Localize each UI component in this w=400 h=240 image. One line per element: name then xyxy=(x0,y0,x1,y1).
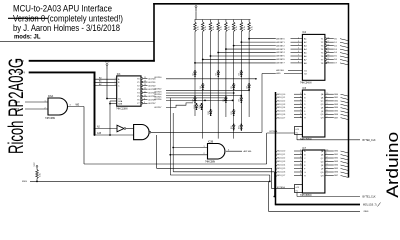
svg-text:MCU_D0: MCU_D0 xyxy=(277,94,285,96)
wire IC6B input pin5 xyxy=(170,154,207,156)
svg-text:D6: D6 xyxy=(246,86,248,88)
svg-text:4.7k: 4.7k xyxy=(228,26,230,30)
wire IC7 out Q5 xyxy=(325,168,334,170)
wire DB0..7 xyxy=(29,60,155,62)
wire /RES bottom xyxy=(269,211,360,213)
wire PHI2 to IC6A pin2 xyxy=(25,108,48,110)
wire IC5 out Q2 xyxy=(325,100,334,102)
wire matrix column 7 xyxy=(240,32,242,132)
ic IC5 clock pin box xyxy=(295,127,303,135)
svg-text:15: 15 xyxy=(327,93,329,95)
svg-text:AXI BIT4: AXI BIT4 xyxy=(276,51,285,54)
svg-text:VCC: VCC xyxy=(194,4,199,6)
svg-text:74HC540N: 74HC540N xyxy=(300,82,312,84)
svg-text:DB7: DB7 xyxy=(334,175,338,177)
svg-text:D13: D13 xyxy=(239,126,241,129)
diode D10 xyxy=(209,111,212,113)
resistor R2 4.7k xyxy=(202,20,204,23)
svg-text:4.7k: 4.7k xyxy=(197,26,199,30)
svg-text:AXI BIT7: AXI BIT7 xyxy=(276,62,285,65)
diode D5 xyxy=(232,85,235,87)
svg-text:MCU_D(0..7): MCU_D(0..7) xyxy=(363,204,377,206)
resistor R8 4.7k xyxy=(248,20,250,23)
wire matrix row 4017D6 xyxy=(166,99,233,101)
svg-text:8: 8 xyxy=(298,58,299,60)
wire IC7 in MCU_D6 xyxy=(276,172,278,174)
svg-text:12: 12 xyxy=(328,58,330,60)
svg-text:AXI SEL: AXI SEL xyxy=(276,69,285,72)
svg-text:AXI BIT6: AXI BIT6 xyxy=(276,58,285,61)
wire AXI BIT1 xyxy=(241,41,275,43)
svg-text:VCC: VCC xyxy=(34,162,36,167)
resistor R9 3.3k pullup xyxy=(36,167,38,169)
diode D13 xyxy=(240,126,243,128)
svg-text:BYTE0_CLK: BYTE0_CLK xyxy=(363,140,376,142)
wire loop2 horizontal xyxy=(157,167,272,169)
wire inverter to nand xyxy=(126,128,134,130)
svg-text:4.7k: 4.7k xyxy=(213,26,215,30)
wire matrix column 1 xyxy=(194,32,196,117)
wire matrix row 4017D5 xyxy=(166,97,226,99)
svg-text:AXI BIT5: AXI BIT5 xyxy=(276,55,285,58)
wire IC5 out Q6 xyxy=(325,113,334,115)
svg-text:DB2: DB2 xyxy=(334,101,338,103)
svg-text:DB1: DB1 xyxy=(334,97,338,99)
svg-text:12: 12 xyxy=(144,88,146,90)
resistor R7 4.7k xyxy=(240,20,242,23)
wire AXI BIT0 xyxy=(249,38,276,40)
diode D1 xyxy=(194,72,197,74)
wire AXI BIT2 xyxy=(234,45,276,47)
svg-text:13: 13 xyxy=(144,84,146,86)
wire loop2 down to BYTE1A xyxy=(271,168,273,188)
svg-text:D5: D5 xyxy=(231,86,233,88)
svg-text:DB7: DB7 xyxy=(334,117,338,119)
diode D15 xyxy=(200,105,203,107)
svg-text:MCU_D4: MCU_D4 xyxy=(277,107,286,109)
svg-text:7: 7 xyxy=(298,55,299,57)
wire matrix column 4 xyxy=(217,32,219,139)
wire vertical to IC6B pin5 xyxy=(169,98,171,175)
wire IC6B output AXI SEL xyxy=(226,150,242,152)
wire A2 to inverter xyxy=(95,128,118,130)
wire nand output to G2 net xyxy=(151,131,262,133)
svg-text:R/W#: R/W# xyxy=(14,102,20,104)
svg-text:QF: QF xyxy=(321,111,323,113)
wire IC5 in MCU_D7 xyxy=(276,118,278,120)
svg-text:AXI BIT2: AXI BIT2 xyxy=(276,44,285,47)
svg-text:4017D7: 4017D7 xyxy=(148,103,156,105)
wire vcc down to G1 xyxy=(106,69,108,99)
wire AXI BIT7 xyxy=(195,62,276,64)
wire IC3 enable G1 xyxy=(107,98,117,100)
svg-text:6: 6 xyxy=(298,51,299,53)
nand gate IC2B body xyxy=(134,125,149,140)
wire vertical to IC6B pin4 xyxy=(172,113,174,172)
wire IC5 ck down xyxy=(296,135,298,141)
wire AXI BIT6 xyxy=(203,58,276,60)
svg-text:QF: QF xyxy=(321,168,323,170)
svg-text:3: 3 xyxy=(298,41,299,43)
wire IC5 out Q5 xyxy=(325,110,334,112)
svg-text:IC6A: IC6A xyxy=(48,95,54,98)
svg-text:mods: JL: mods: JL xyxy=(14,34,41,41)
svg-text:A[0..15]: A[0..15] xyxy=(18,71,26,74)
svg-text:/RES: /RES xyxy=(364,211,369,213)
wire loop WE up to BYTE0A xyxy=(266,133,268,164)
svg-text:AXI BIT3: AXI BIT3 xyxy=(276,48,285,51)
wire IC5 in MCU_D3 xyxy=(276,104,278,106)
wire IC5 in MCU_D6 xyxy=(276,114,278,116)
svg-text:D8: D8 xyxy=(223,99,225,101)
wire IC3 enable G2B xyxy=(110,103,117,105)
svg-text:2: 2 xyxy=(203,153,204,155)
svg-text:Arduino: Arduino xyxy=(383,132,400,198)
wire IC3 input C xyxy=(95,84,117,86)
svg-text:4: 4 xyxy=(298,44,299,46)
svg-text:D9: D9 xyxy=(239,99,241,101)
wire WE down xyxy=(83,107,85,165)
svg-text:11: 11 xyxy=(144,91,146,93)
svg-text:5: 5 xyxy=(298,48,299,50)
svg-text:D10: D10 xyxy=(208,111,210,114)
svg-text:VCC: VCC xyxy=(105,61,110,63)
svg-text:DB4: DB4 xyxy=(334,107,338,109)
svg-text:3: 3 xyxy=(228,149,229,151)
diode D8 xyxy=(225,98,228,100)
wire IC7 out Q6 xyxy=(325,171,334,173)
wire IC6A output WE xyxy=(68,106,84,108)
diode D7 xyxy=(194,98,197,100)
diode D4 xyxy=(202,85,205,87)
svg-text:DB1: DB1 xyxy=(334,154,338,156)
wire IC7 out Q4 xyxy=(325,164,334,166)
wire IC3 input B xyxy=(95,81,117,83)
svg-text:MCU_D6: MCU_D6 xyxy=(277,114,285,116)
wire loop3 horizontal xyxy=(173,171,274,173)
svg-text:D0: D0 xyxy=(334,38,336,40)
svg-text:4.7k: 4.7k xyxy=(244,26,246,30)
and-gate IC6B body xyxy=(208,144,225,160)
svg-text:D3: D3 xyxy=(334,49,336,51)
wire AXI BIT5 xyxy=(210,55,275,57)
wire matrix row 4017D2 xyxy=(166,89,249,91)
svg-text:2: 2 xyxy=(298,37,299,39)
svg-text:4.7k: 4.7k xyxy=(205,26,207,30)
wire IC7 in MCU_D7 xyxy=(276,176,278,178)
svg-text:DB3: DB3 xyxy=(334,161,338,163)
svg-text:MCU_D6: MCU_D6 xyxy=(277,172,285,174)
wire AXI BIT3 xyxy=(226,48,276,50)
resistor R5 4.7k xyxy=(225,20,227,23)
svg-text:D7: D7 xyxy=(334,63,336,65)
wire matrix column 6 xyxy=(233,32,235,139)
wire A15 to nand xyxy=(95,134,134,136)
svg-text:4.7k: 4.7k xyxy=(252,26,254,30)
wire matrix column 8 xyxy=(248,32,250,118)
wire matrix column 3 xyxy=(209,32,211,117)
svg-text:9: 9 xyxy=(298,62,299,64)
svg-text:15: 15 xyxy=(144,77,146,79)
wire matrix row 4017D0 xyxy=(166,78,256,80)
svg-text:10: 10 xyxy=(144,95,146,97)
svg-text:G2B: G2B xyxy=(118,104,123,106)
wire G2 net down to nand out xyxy=(261,74,263,133)
diode D11 xyxy=(232,111,235,113)
svg-text:DB6: DB6 xyxy=(334,172,338,174)
wire matrix row 4017D3 xyxy=(166,92,234,94)
title box bottom line xyxy=(0,40,154,42)
wire DB bus up xyxy=(153,3,155,62)
wire IC5 in MCU_D4 xyxy=(276,108,278,110)
wire IC3 input A xyxy=(95,78,117,80)
svg-text:14: 14 xyxy=(144,81,146,83)
svg-text:1: 1 xyxy=(203,146,204,148)
svg-text:BYTE1_CLK: BYTE1_CLK xyxy=(363,197,376,199)
ic IC4 box xyxy=(302,34,325,80)
svg-text:4017D0: 4017D0 xyxy=(154,77,162,79)
svg-text:74HC08N: 74HC08N xyxy=(205,161,215,163)
ic IC7 clock pin box xyxy=(295,185,303,193)
wire MCU_D bus vertical xyxy=(275,92,277,205)
svg-text:AXI BIT1: AXI BIT1 xyxy=(276,41,285,44)
svg-text:D3: D3 xyxy=(239,73,241,75)
wire IC5 out Q7 xyxy=(325,117,334,119)
svg-text:/RES: /RES xyxy=(22,181,27,183)
wire BYTE1_CLK xyxy=(297,196,360,198)
wire AXI BIT4 xyxy=(218,52,276,54)
svg-text:MCU_D5: MCU_D5 xyxy=(277,168,285,170)
wire IC5 out Q0 xyxy=(325,93,334,95)
svg-text:D7: D7 xyxy=(192,99,194,101)
wire A bus down xyxy=(94,72,96,136)
svg-text:DB6: DB6 xyxy=(334,114,338,116)
wire IC5 out Q1 xyxy=(325,97,334,99)
resistor R3 4.7k xyxy=(209,20,211,23)
wire IC7 ck down xyxy=(296,193,298,197)
wire loop3 down xyxy=(273,172,275,197)
svg-text:D11: D11 xyxy=(231,111,233,114)
wire MCU_D(0..7) bottom xyxy=(275,204,360,206)
svg-text:13: 13 xyxy=(328,55,330,57)
wire IC7 out Q1 xyxy=(325,154,334,156)
wire DB bus right vertical xyxy=(348,3,350,178)
wire matrix column 2 xyxy=(202,32,204,139)
svg-text:DB0: DB0 xyxy=(334,151,338,153)
svg-text:D14: D14 xyxy=(194,105,196,108)
wire IC7 out Q0 xyxy=(325,150,334,152)
svg-text:D12: D12 xyxy=(231,126,233,129)
svg-text:14: 14 xyxy=(328,51,330,53)
wire matrix row 4017D4 xyxy=(166,95,241,97)
svg-text:G2A: G2A xyxy=(118,100,123,103)
diode D6 xyxy=(248,85,251,87)
svg-text:MCU_D2: MCU_D2 xyxy=(277,158,285,160)
diode D9 xyxy=(240,98,243,100)
svg-text:by J. Aaron Holmes - 3/16/2018: by J. Aaron Holmes - 3/16/2018 xyxy=(13,23,120,33)
wire IC5 out Q3 xyxy=(325,103,334,105)
svg-text:DB3: DB3 xyxy=(334,104,338,106)
strikethrough on Version 0 xyxy=(8,17,48,19)
wire DB bus top xyxy=(153,3,348,5)
svg-text:4017D2: 4017D2 xyxy=(154,89,162,91)
svg-text:AXI BIT0: AXI BIT0 xyxy=(276,37,285,40)
svg-text:MCU_D7: MCU_D7 xyxy=(277,175,285,177)
svg-text:74HC08N: 74HC08N xyxy=(45,118,55,120)
svg-text:MCU_D0: MCU_D0 xyxy=(277,151,285,153)
wire IC7 out Q7 xyxy=(325,175,334,177)
svg-text:BYTE0A: BYTE0A xyxy=(270,130,278,133)
svg-text:MCU_D7: MCU_D7 xyxy=(277,117,285,119)
wire IC5 out Q4 xyxy=(325,107,334,109)
svg-text:AXI SEL: AXI SEL xyxy=(244,150,253,153)
svg-text:15: 15 xyxy=(328,48,330,50)
svg-text:4.7k: 4.7k xyxy=(221,26,223,30)
svg-text:16: 16 xyxy=(328,44,330,46)
wire loop4 down to res xyxy=(269,175,271,181)
wire /RES horizontal xyxy=(30,180,269,182)
svg-text:MCU-to-2A03 APU Interface: MCU-to-2A03 APU Interface xyxy=(13,4,112,14)
svg-text:D2: D2 xyxy=(334,45,336,47)
wire IC5 in MCU_D0 xyxy=(276,94,278,96)
svg-text:4.7k: 4.7k xyxy=(236,26,238,30)
svg-text:DB5: DB5 xyxy=(334,168,338,170)
wire resistor rail xyxy=(195,19,251,21)
svg-text:1: 1 xyxy=(44,100,45,102)
svg-text:3.3k: 3.3k xyxy=(39,173,41,177)
svg-text:DB0: DB0 xyxy=(334,94,338,96)
svg-text:18: 18 xyxy=(328,37,330,39)
wire vcc stub to rail xyxy=(195,11,197,19)
wire A0..15 xyxy=(29,71,96,73)
svg-text:WE: WE xyxy=(76,105,80,107)
diode D12 xyxy=(232,126,235,128)
svg-text:D4: D4 xyxy=(200,86,202,88)
svg-text:D6: D6 xyxy=(334,59,336,61)
resistor R6 4.7k xyxy=(233,20,235,23)
wire /RES down xyxy=(268,181,270,211)
svg-text:4017D7: 4017D7 xyxy=(154,107,162,109)
wire IC6B input pin4 xyxy=(173,147,207,149)
wire IC5 in MCU_D2 xyxy=(276,101,278,103)
svg-text:D1: D1 xyxy=(192,73,194,75)
wire IC7 in MCU_D5 xyxy=(276,169,278,171)
svg-text:3: 3 xyxy=(70,105,71,107)
svg-text:A15: A15 xyxy=(97,132,102,135)
resistor R1 4.7k xyxy=(194,20,196,23)
diode D14 xyxy=(195,105,198,107)
svg-text:IC3B: IC3B xyxy=(208,141,214,143)
wire IC7 in MCU_D3 xyxy=(276,162,278,164)
svg-text:D[0..7]: D[0..7] xyxy=(18,61,25,63)
wire matrix row step 4017D7 xyxy=(166,103,193,108)
wire IC5 in MCU_D5 xyxy=(276,111,278,113)
wire IC7 in MCU_D0 xyxy=(276,151,278,153)
svg-text:MCU_D1: MCU_D1 xyxy=(277,97,285,99)
svg-text:D1: D1 xyxy=(334,42,336,44)
svg-text:DB5: DB5 xyxy=(334,111,338,113)
ic IC5 box xyxy=(302,90,325,137)
wire IC4 G2 AXD xyxy=(262,73,276,75)
diode D2 xyxy=(217,72,220,74)
inverter body xyxy=(117,125,124,132)
wire BYTE0_CLK xyxy=(297,139,360,141)
wire IC7 in MCU_D4 xyxy=(276,165,278,167)
svg-text:74HC138N: 74HC138N xyxy=(116,108,128,110)
svg-text:PHI2: PHI2 xyxy=(14,109,20,111)
svg-text:4017D2: 4017D2 xyxy=(148,85,156,87)
wire loop WE horizontal xyxy=(84,163,267,165)
svg-text:BYTE1A: BYTE1A xyxy=(277,186,285,189)
svg-text:D5: D5 xyxy=(334,56,336,58)
wire loop2 left vertical xyxy=(156,135,158,168)
svg-text:DB4: DB4 xyxy=(334,165,338,167)
wire IC7 in MCU_D1 xyxy=(276,155,278,157)
svg-text:2: 2 xyxy=(44,107,45,109)
wire IC3 G2 down to A15 net xyxy=(109,101,111,135)
svg-text:11: 11 xyxy=(328,62,330,64)
svg-text:4017D1: 4017D1 xyxy=(148,82,156,84)
svg-text:D15: D15 xyxy=(199,105,201,108)
wire IC3 enable G2A xyxy=(110,100,117,102)
diode D3 xyxy=(240,72,243,74)
wire matrix column 5 xyxy=(225,32,227,118)
wire BYTE0A to IC5 RCK xyxy=(267,132,295,134)
resistor R4 4.7k xyxy=(217,20,219,23)
svg-text:MCU_D3: MCU_D3 xyxy=(277,161,285,163)
svg-text:17: 17 xyxy=(328,41,330,43)
svg-text:4017D6: 4017D6 xyxy=(154,99,162,101)
svg-text:D2: D2 xyxy=(216,73,218,75)
svg-text:MCU_D2: MCU_D2 xyxy=(277,101,285,103)
svg-text:MCU_D5: MCU_D5 xyxy=(277,111,285,113)
and-gate IC6A body xyxy=(48,98,68,115)
svg-text:15: 15 xyxy=(327,150,329,152)
svg-text:AXD: AXD xyxy=(276,72,281,75)
ic IC7 box xyxy=(302,150,325,193)
wire BYTE1A to IC7 RCK xyxy=(272,188,295,190)
svg-text:MCU_D4: MCU_D4 xyxy=(277,165,286,167)
svg-text:DB2: DB2 xyxy=(334,158,338,160)
wire IC7 out Q3 xyxy=(325,161,334,163)
wire IC5 in MCU_D1 xyxy=(276,98,278,100)
wire IC7 out Q2 xyxy=(325,157,334,159)
wire R/W# to IC6A pin1 xyxy=(25,101,48,103)
wire loop4 horizontal xyxy=(170,174,269,176)
ic IC3 box xyxy=(117,76,141,106)
svg-text:MCU_D3: MCU_D3 xyxy=(277,104,285,106)
wire IC7 in MCU_D2 xyxy=(276,158,278,160)
svg-text:MCU_D1: MCU_D1 xyxy=(277,154,285,156)
